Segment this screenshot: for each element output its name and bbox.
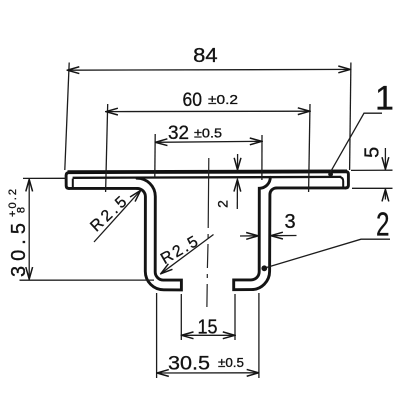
svg-text:±0.2: ±0.2	[208, 93, 238, 107]
svg-text:60: 60	[183, 89, 203, 111]
svg-text:2: 2	[376, 206, 390, 243]
svg-text:30.5: 30.5	[168, 352, 210, 374]
svg-text:30.5: 30.5	[8, 223, 30, 277]
svg-text:2: 2	[214, 200, 230, 208]
svg-text:R2.5: R2.5	[158, 233, 201, 268]
svg-text:3: 3	[285, 211, 296, 233]
svg-text:84: 84	[193, 45, 218, 67]
svg-text:R2.5: R2.5	[87, 194, 130, 236]
svg-text:1: 1	[375, 80, 394, 118]
svg-text:8: 8	[16, 207, 28, 213]
svg-text:±0.5: ±0.5	[194, 127, 222, 141]
svg-text:±0.5: ±0.5	[218, 356, 244, 370]
svg-text:15: 15	[198, 315, 218, 338]
svg-text:32: 32	[168, 123, 189, 144]
svg-text:5: 5	[362, 147, 384, 158]
